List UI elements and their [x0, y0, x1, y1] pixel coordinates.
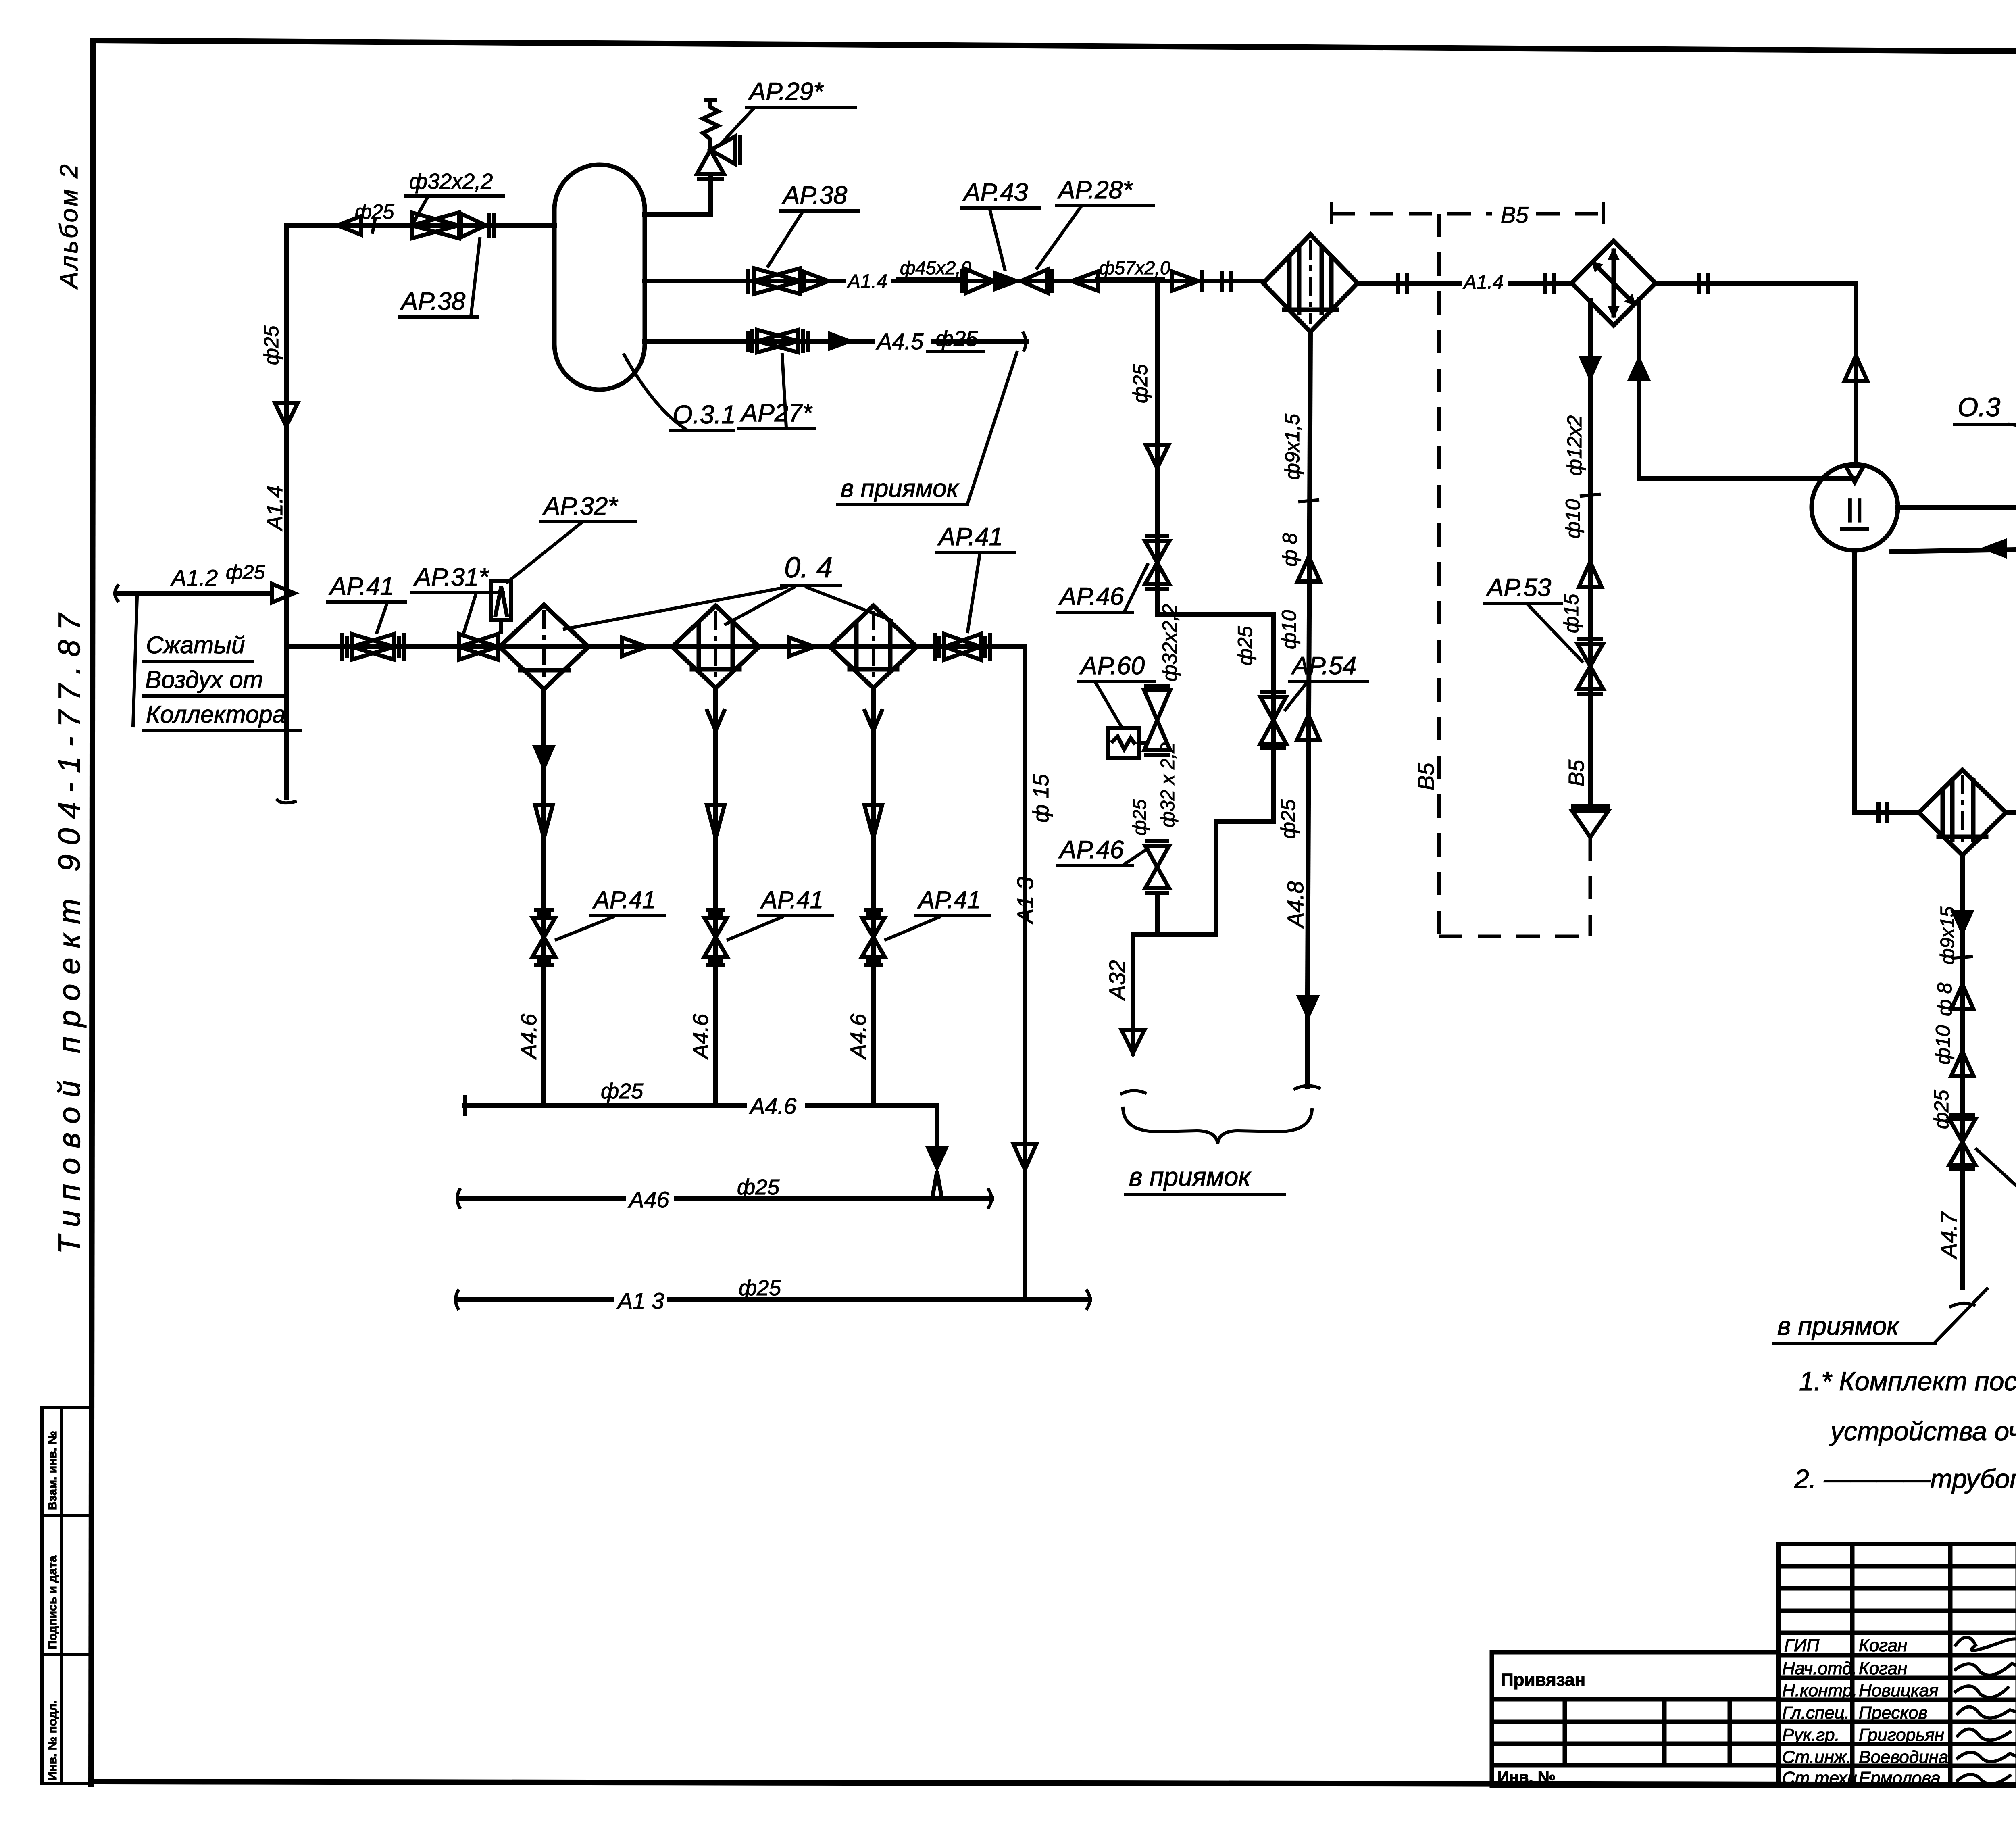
frame top border — [93, 40, 2016, 54]
svg-text:АР.28*: АР.28* — [1057, 176, 1133, 204]
arrow open down A13 — [1014, 1144, 1036, 1169]
svg-text:Коган: Коган — [1859, 1636, 1907, 1655]
svg-text:Воздух от: Воздух от — [145, 666, 263, 693]
cooler T2 diamond — [1572, 241, 1656, 325]
svg-text:А4.5: А4.5 — [876, 329, 924, 354]
arrow open up d10 — [1951, 1051, 1974, 1076]
svg-text:АР.29*: АР.29* — [748, 78, 824, 106]
label A1.4 mid — [1462, 274, 1508, 291]
svg-text:Гл.спец.: Гл.спец. — [1782, 1703, 1849, 1723]
pipe bus vertical left — [284, 225, 289, 798]
svg-text:А4.6: А4.6 — [517, 1013, 541, 1060]
svg-text:0. 4: 0. 4 — [784, 552, 833, 584]
svg-text:ф10: ф10 — [1562, 499, 1584, 538]
flange pair after T2 — [1699, 273, 1708, 294]
signature scribbles — [1956, 1635, 2016, 1784]
arrow open up — [1579, 562, 1602, 587]
svg-text:АР.60: АР.60 — [1079, 652, 1145, 680]
valve AP.54 bypass — [1260, 692, 1286, 748]
valve AP.28* — [1021, 269, 1052, 293]
valve AP.54 row2 — [1949, 1115, 1975, 1169]
svg-text:А1 3: А1 3 — [616, 1288, 664, 1313]
check arrow after AP.38 right — [804, 272, 829, 290]
flow arrow solid A4.5 — [828, 331, 854, 351]
svg-text:АР.38: АР.38 — [781, 181, 848, 209]
pipe A4.5 drain — [645, 339, 1026, 344]
pre-title table — [1492, 1652, 1779, 1786]
svg-text:ф25: ф25 — [1277, 799, 1300, 839]
valve AP.53 — [1577, 639, 1603, 694]
svg-text:устройства очистки П-ППВМ-16: устройства очистки П-ППВМ-16 — [1829, 1416, 2016, 1446]
return pipe I to II — [1892, 545, 2016, 552]
check valve left on top pipe — [337, 216, 361, 235]
svg-text:В5: В5 — [1501, 202, 1529, 227]
pipe drop from D3 — [1960, 855, 1965, 1288]
pipe D3 to D4 — [2006, 810, 2016, 815]
svg-text:А4.8: А4.8 — [1283, 881, 1308, 929]
pipe drop from T1 bottom — [1307, 332, 1310, 1087]
fork arrow on drop — [1297, 715, 1320, 740]
svg-text:Типовой проект 904-1-77.87: Типовой проект 904-1-77.87 — [52, 604, 87, 1254]
valve AP.27* — [748, 329, 808, 353]
svg-text:ф25: ф25 — [739, 1276, 781, 1300]
arrow solid left on return — [1981, 539, 2007, 558]
pipe vessel mid nozzle A1.4 — [645, 279, 1263, 283]
svg-text:Рук.гр.: Рук.гр. — [1782, 1725, 1840, 1745]
svg-text:А1.4: А1.4 — [263, 486, 287, 531]
pipe vessel top nozzle — [645, 177, 710, 214]
svg-text:ф25: ф25 — [1129, 364, 1152, 403]
flow arrow down on bus — [275, 403, 298, 426]
pipe T junction down d25 branch — [1155, 281, 1160, 615]
leaders 0.4 — [564, 587, 786, 629]
svg-text:ГИП: ГИП — [1784, 1636, 1819, 1655]
dashed funnel to loop — [1589, 837, 1592, 936]
pipe vessel to left corner — [286, 223, 554, 228]
svg-text:ф25: ф25 — [935, 327, 978, 351]
curly brace v priyamok — [1123, 1108, 1312, 1144]
flange pair before T2 — [1545, 273, 1554, 294]
drain B2 — [713, 688, 718, 1106]
svg-text:Инв. №: Инв. № — [1497, 1768, 1556, 1786]
A32 end tick — [1122, 1090, 1145, 1094]
signature table — [1779, 1544, 2016, 1786]
svg-text:ф15: ф15 — [1560, 594, 1583, 633]
signature rows text — [1782, 1636, 1948, 1788]
tick row2 — [1954, 957, 1971, 958]
svg-text:Нач.отд.: Нач.отд. — [1782, 1659, 1857, 1678]
svg-text:Новицкая: Новицкая — [1859, 1681, 1939, 1701]
relief valve AP.29* — [697, 99, 740, 179]
arrow open up d8 — [1951, 984, 1974, 1009]
svg-text:ф32х2,2: ф32х2,2 — [1158, 604, 1181, 681]
svg-text:АР.53: АР.53 — [1485, 574, 1551, 602]
svg-text:Инв. № подл.: Инв. № подл. — [46, 1700, 59, 1780]
svg-text:ф25: ф25 — [1129, 799, 1150, 836]
filter T1 diamond — [1263, 234, 1358, 332]
svg-text:АР.41: АР.41 — [937, 523, 1003, 551]
svg-text:ф10: ф10 — [1278, 610, 1300, 649]
pipe T1 to T2 — [1358, 281, 1572, 286]
margin stamp table — [42, 1407, 93, 1784]
svg-text:в приямок: в приямок — [1129, 1162, 1252, 1191]
flow arrow down branch — [1146, 445, 1168, 468]
valve AP.41 drain3 — [862, 910, 885, 965]
svg-text:АР.46: АР.46 — [1058, 583, 1124, 611]
valve AP.60 with actuator — [1108, 686, 1170, 758]
valve AP.41 drain2 — [704, 910, 727, 965]
svg-text:Н.контр.: Н.контр. — [1782, 1681, 1857, 1701]
check arrow B2-B3 — [789, 638, 814, 656]
frame bottom border — [91, 1782, 2016, 1786]
pipe drop from T2 left — [1588, 301, 1593, 807]
label A1.4 — [846, 273, 891, 290]
compressor II top triangle — [1846, 466, 1864, 482]
svg-text:Альбом 2: Альбом 2 — [55, 163, 83, 290]
svg-text:АР27*: АР27* — [739, 399, 813, 427]
svg-text:в приямок: в приямок — [841, 475, 960, 502]
svg-text:Подпись и дата: Подпись и дата — [46, 1555, 59, 1649]
svg-text:Привязан: Привязан — [1501, 1670, 1585, 1690]
dashed bracket B5 top — [1330, 204, 1333, 223]
label A13 — [614, 1290, 667, 1311]
check arrow B1-B2 — [622, 638, 647, 656]
svg-text:ф25: ф25 — [601, 1079, 644, 1103]
dashed vertical B5 — [1437, 214, 1441, 936]
svg-text:ф25: ф25 — [260, 325, 283, 365]
svg-text:В5: В5 — [1564, 759, 1589, 786]
svg-text:ф9х15: ф9х15 — [1937, 907, 1958, 965]
valve AP.41 drain1 — [533, 910, 555, 965]
svg-text:1.* Комплект поставки комп: 1.* Комплект поставки компрессора ВУ-0,6… — [1799, 1366, 2016, 1396]
svg-text:АР.41: АР.41 — [328, 573, 394, 600]
label A46 — [626, 1190, 674, 1210]
svg-text:Пресков: Пресков — [1859, 1703, 1928, 1723]
svg-text:ф10: ф10 — [1932, 1025, 1954, 1065]
arrow solid down on drop — [1579, 356, 1602, 381]
A4.7 end tick — [1951, 1303, 1974, 1307]
svg-text:Воеводина: Воеводина — [1859, 1747, 1948, 1767]
svg-text:Григорьян: Григорьян — [1859, 1725, 1944, 1745]
svg-text:в приямок: в приямок — [1777, 1311, 1900, 1340]
arrow open right inlet — [272, 584, 294, 602]
filter B3 diamond — [830, 606, 917, 688]
bus end tick — [277, 800, 295, 803]
svg-text:АР.32*: АР.32* — [542, 492, 618, 520]
valve AP.46 lower — [1145, 841, 1169, 893]
filter D3 diamond — [1919, 770, 2006, 855]
svg-text:А1.4: А1.4 — [1462, 272, 1504, 293]
svg-text:ф25: ф25 — [355, 200, 394, 223]
tick on drop — [1300, 500, 1318, 502]
svg-text:А32: А32 — [1104, 960, 1130, 1001]
svg-text:А4.6: А4.6 — [689, 1013, 713, 1060]
drain B3 — [871, 688, 876, 1106]
arrow open up on drop — [1297, 556, 1320, 581]
drain B1 — [541, 689, 546, 1106]
label A4.5 — [875, 331, 931, 351]
dashed horizontal B5 bottom — [1439, 935, 1585, 938]
valve AP.38 right — [748, 268, 800, 294]
svg-text:Сжатый: Сжатый — [146, 631, 245, 659]
svg-text:ф25: ф25 — [737, 1175, 780, 1199]
svg-text:А4.6: А4.6 — [749, 1093, 797, 1119]
svg-text:В5: В5 — [1413, 763, 1439, 790]
valve AP.41 outlet — [935, 633, 990, 661]
manifold A13 — [457, 1297, 1089, 1302]
pipe T2 to corner and down to compressor II — [1656, 283, 1856, 464]
manifold A4.6 — [465, 1106, 937, 1146]
funnel — [1571, 807, 1610, 837]
valve AP.43 — [962, 269, 994, 293]
svg-text:ф32 х 2,2: ф32 х 2,2 — [1157, 742, 1179, 827]
svg-text:Коллектора: Коллектора — [146, 701, 286, 728]
pipe A32 lower jog — [1133, 893, 1157, 1053]
filter B2 diamond — [672, 606, 759, 688]
tick — [1581, 494, 1599, 496]
svg-text:А1.4: А1.4 — [846, 271, 887, 292]
svg-text:ф32х2,2: ф32х2,2 — [409, 169, 493, 194]
pipe corner down A13 — [1023, 647, 1027, 1300]
svg-text:АР.41: АР.41 — [917, 886, 981, 913]
filter B1 diamond — [500, 605, 589, 689]
pipe feedback from T2 to compressor II — [1639, 300, 1856, 478]
coupling line II to box — [1898, 505, 2016, 510]
svg-text:Взам. инв. №: Взам. инв. № — [46, 1431, 59, 1510]
pipe A1.2 inlet — [117, 591, 271, 596]
svg-text:А46: А46 — [628, 1187, 669, 1212]
valve AP.31* — [459, 581, 511, 660]
svg-text:А4.7: А4.7 — [1936, 1211, 1961, 1259]
svg-text:А4.6: А4.6 — [846, 1013, 871, 1060]
svg-text:О.3: О.3 — [1958, 392, 2001, 422]
flange pair before filter T1 — [1222, 271, 1231, 292]
svg-text:ф25: ф25 — [1234, 626, 1256, 665]
valve AP.38 left bowtie — [412, 213, 494, 238]
A4.8 end tick — [1295, 1086, 1319, 1089]
svg-text:Ст.техн.: Ст.техн. — [1782, 1768, 1862, 1788]
valve AP.46 upper — [1145, 536, 1169, 589]
arrow solid up feedback — [1628, 356, 1650, 381]
pipe bypass T to AP.54 — [1157, 615, 1273, 935]
check valve after d57 — [1172, 270, 1202, 292]
frame left border — [91, 40, 93, 1784]
arrow solid down A4.8 — [1297, 996, 1319, 1020]
svg-text:ф 8: ф 8 — [1279, 533, 1301, 567]
arrow open down A32 — [1122, 1030, 1144, 1053]
svg-text:2. ————трубопроводы раздела: 2. ————трубопроводы раздела ВК — [1794, 1464, 2016, 1494]
svg-text:АР.38: АР.38 — [400, 288, 466, 315]
A4.5 end tick — [1023, 333, 1026, 350]
pipe compressor II down to row2 — [1855, 550, 1919, 813]
svg-text:Коган: Коган — [1859, 1659, 1907, 1678]
svg-text:ф9х1,5: ф9х1,5 — [1281, 414, 1304, 480]
flange pair row2 left — [1879, 802, 1887, 823]
check valve before d57 — [1072, 271, 1098, 291]
svg-text:ф57х2,0: ф57х2,0 — [1099, 257, 1170, 278]
arrow open up into compressor II — [1845, 356, 1867, 381]
pipe main filter row — [286, 644, 1025, 649]
svg-text:А1 3: А1 3 — [1012, 877, 1038, 925]
svg-text:АР.54: АР.54 — [1291, 652, 1356, 680]
valve AP.41 inlet — [342, 633, 404, 661]
svg-text:ф25: ф25 — [226, 561, 265, 584]
vessel O.3.1 capsule — [554, 165, 645, 390]
manifold A46 — [458, 1196, 991, 1201]
svg-text:АР.31*: АР.31* — [413, 563, 489, 591]
svg-text:А1.2: А1.2 — [170, 565, 218, 590]
compressor II circle — [1812, 464, 1898, 550]
svg-text:АР.41: АР.41 — [592, 886, 656, 913]
svg-text:Ермолова: Ермолова — [1859, 1768, 1941, 1788]
svg-text:II: II — [1845, 492, 1864, 529]
svg-text:Ст.инж.: Ст.инж. — [1782, 1747, 1851, 1767]
flange pair after T1 — [1398, 273, 1407, 294]
label A4.6 manifold1 — [747, 1096, 805, 1116]
svg-text:ф 15: ф 15 — [1029, 774, 1053, 823]
svg-text:АР.43: АР.43 — [962, 179, 1028, 206]
svg-text:АР.41: АР.41 — [760, 886, 823, 913]
svg-text:АР.46: АР.46 — [1058, 836, 1124, 864]
arrow solid down D3 drop — [1951, 911, 1974, 936]
svg-text:ф12х2: ф12х2 — [1563, 415, 1586, 476]
